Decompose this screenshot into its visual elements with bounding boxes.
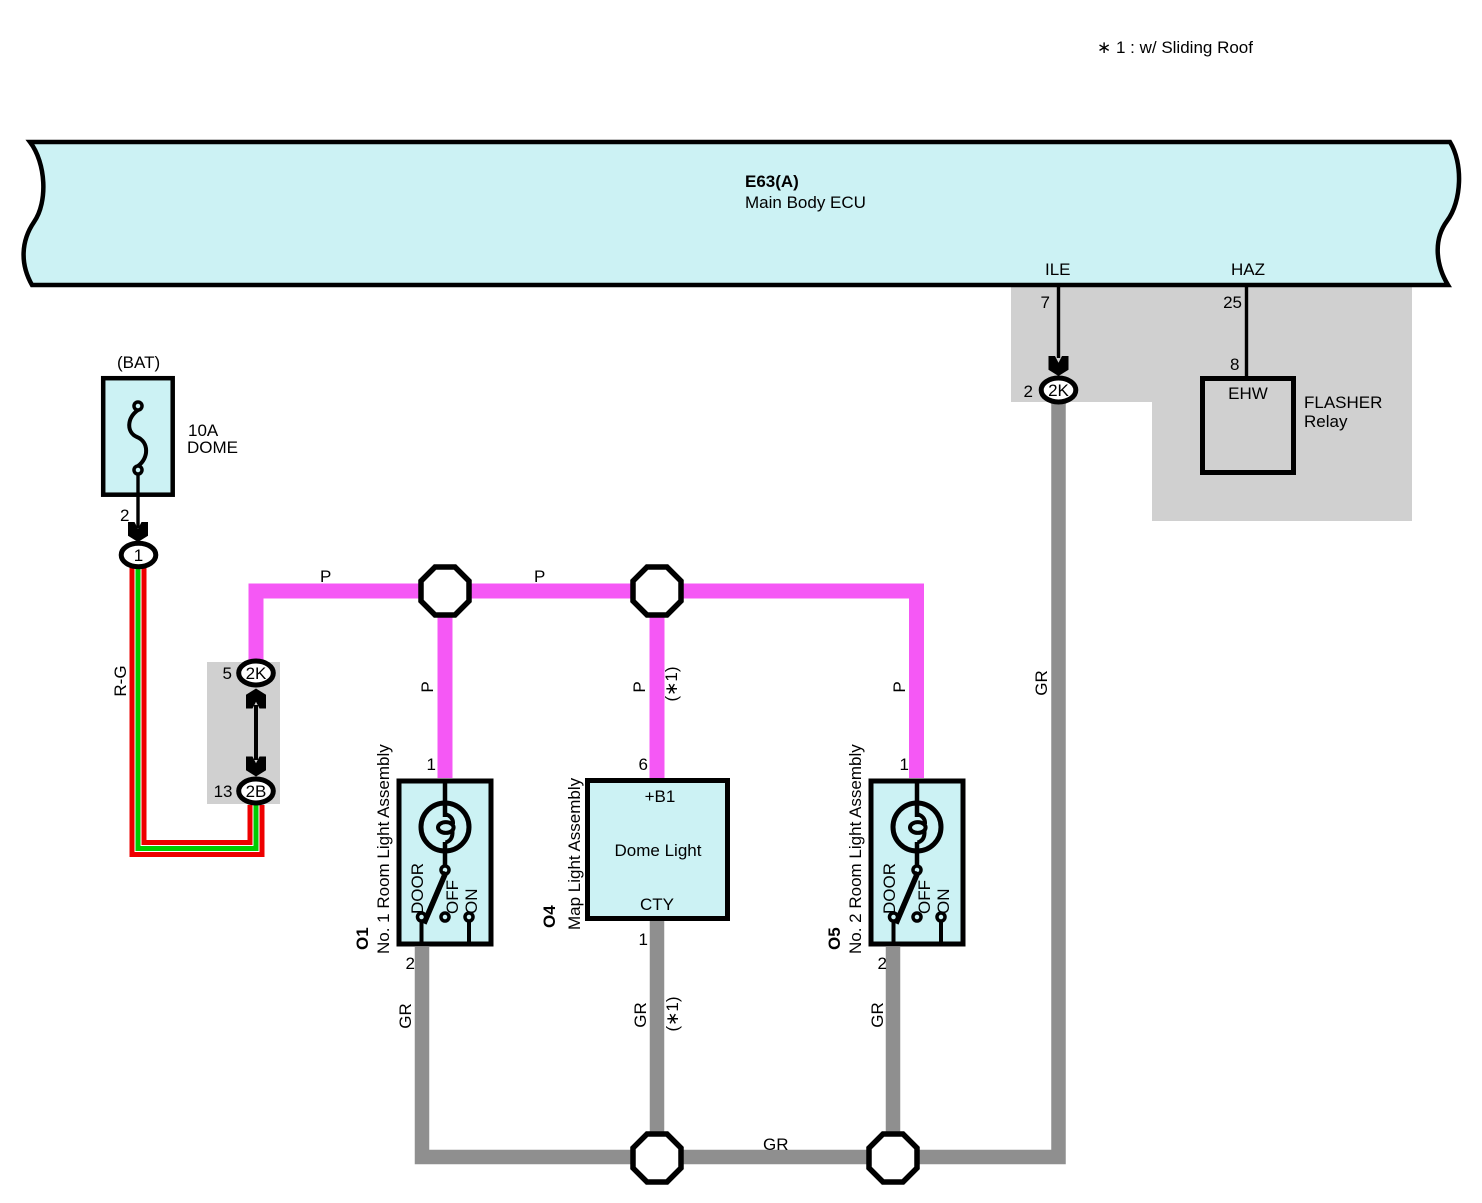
svg-text:2: 2 xyxy=(1024,382,1033,401)
svg-text:7: 7 xyxy=(1041,293,1050,312)
svg-text:2: 2 xyxy=(120,506,129,525)
svg-text:(∗1): (∗1) xyxy=(662,666,681,701)
shaded area 2K/2B junction xyxy=(207,662,280,804)
wire P drop to O4 pin 6 xyxy=(630,591,681,778)
node 1 xyxy=(121,543,156,566)
wire GR from O5 pin 2 xyxy=(886,947,901,1157)
svg-text:GR: GR xyxy=(396,1003,415,1029)
wire R-G from node 1 to connector 2B xyxy=(111,567,262,855)
svg-text:2K: 2K xyxy=(1048,381,1069,400)
svg-text:P: P xyxy=(320,567,331,586)
svg-text:O5: O5 xyxy=(825,927,844,950)
wire GR from connector 2K to ground bus xyxy=(422,395,1059,1157)
wire GR from O4 CTY pin 1 xyxy=(650,921,665,1157)
svg-text:Dome Light: Dome Light xyxy=(615,841,702,860)
svg-text:P: P xyxy=(890,681,909,692)
arrow into node 1 xyxy=(128,522,148,542)
svg-text:OFF: OFF xyxy=(443,880,462,914)
wire P drop to O1 pin 1 xyxy=(418,591,445,778)
svg-text:5: 5 xyxy=(223,664,232,683)
svg-text:DOOR: DOOR xyxy=(408,863,427,914)
svg-text:2B: 2B xyxy=(246,782,267,801)
svg-text:OFF: OFF xyxy=(915,880,934,914)
svg-text:P: P xyxy=(534,567,545,586)
svg-text:1: 1 xyxy=(900,755,909,774)
svg-text:ON: ON xyxy=(462,889,481,915)
svg-text:1: 1 xyxy=(639,930,648,949)
svg-text:8: 8 xyxy=(1230,355,1239,374)
ECU E63(A) Main Body ECU banner xyxy=(24,142,1459,285)
svg-text:O1: O1 xyxy=(353,927,372,950)
svg-text:25: 25 xyxy=(1223,293,1242,312)
svg-text:13: 13 xyxy=(214,782,233,801)
fuse 10A DOME xyxy=(103,353,238,495)
svg-text:1: 1 xyxy=(427,755,436,774)
svg-text:DOOR: DOOR xyxy=(880,863,899,914)
svg-text:HAZ: HAZ xyxy=(1231,260,1265,279)
svg-text:No. 2 Room Light Assembly: No. 2 Room Light Assembly xyxy=(846,744,865,954)
svg-text:O4: O4 xyxy=(540,905,559,928)
svg-text:EHW: EHW xyxy=(1228,384,1268,403)
svg-text:R-G: R-G xyxy=(111,665,130,696)
svg-text:P: P xyxy=(630,681,649,692)
svg-text:+B1: +B1 xyxy=(645,787,676,806)
svg-text:2: 2 xyxy=(878,954,887,973)
svg-text:P: P xyxy=(418,681,437,692)
svg-text:Main Body ECU: Main Body ECU xyxy=(745,193,866,212)
svg-text:2: 2 xyxy=(406,954,415,973)
svg-text:GR: GR xyxy=(868,1002,887,1028)
wire from ECU HAZ terminal xyxy=(1223,287,1246,378)
flasher relay EHW xyxy=(1203,379,1383,473)
svg-text:GR: GR xyxy=(631,1002,650,1028)
junction octagon B xyxy=(633,567,681,615)
junction octagon A xyxy=(421,567,469,615)
svg-text:∗ 1 : w/ Sliding Roof: ∗ 1 : w/ Sliding Roof xyxy=(1097,38,1253,57)
connector 2B xyxy=(214,779,274,803)
lamp assembly O5 No. 2 Room Light xyxy=(825,744,963,973)
junction octagon D xyxy=(869,1134,917,1182)
svg-text:CTY: CTY xyxy=(640,895,674,914)
wire P from connector 2K to O5 pin 1 xyxy=(256,567,917,778)
svg-text:E63(A): E63(A) xyxy=(745,172,799,191)
svg-text:FLASHER: FLASHER xyxy=(1304,393,1382,412)
note *1 w/ Sliding Roof xyxy=(1097,38,1253,57)
svg-text:GR: GR xyxy=(763,1135,789,1154)
svg-text:(BAT): (BAT) xyxy=(117,353,160,372)
svg-text:Map Light Assembly: Map Light Assembly xyxy=(565,777,584,930)
bulb xyxy=(443,781,448,817)
connector 2K (right) xyxy=(1024,378,1076,402)
connector 2K (left) xyxy=(223,661,274,685)
wire fuse pin 2 to node 1 xyxy=(120,474,148,542)
svg-text:DOME: DOME xyxy=(187,438,238,457)
switch DOOR/OFF/ON xyxy=(913,866,921,874)
junction double arrow 2K-2B xyxy=(246,689,266,777)
svg-text:(∗1): (∗1) xyxy=(663,996,682,1031)
arrow into connector 2K xyxy=(1049,356,1069,376)
svg-text:1: 1 xyxy=(134,546,143,565)
junction octagon C xyxy=(633,1134,681,1182)
svg-text:No. 1 Room Light Assembly: No. 1 Room Light Assembly xyxy=(374,744,393,954)
bulb xyxy=(915,781,920,817)
wire from ECU ILE terminal xyxy=(1041,287,1069,376)
svg-text:6: 6 xyxy=(639,755,648,774)
lamp assembly O4 Map Light xyxy=(540,755,728,949)
wire color labels GR xyxy=(396,670,1051,1154)
svg-text:ILE: ILE xyxy=(1045,260,1071,279)
svg-text:2K: 2K xyxy=(246,664,267,683)
switch DOOR/OFF/ON xyxy=(441,866,449,874)
shaded area under ILE/HAZ xyxy=(1011,285,1412,521)
svg-text:GR: GR xyxy=(1032,670,1051,696)
lamp assembly O1 No. 1 Room Light xyxy=(353,744,491,973)
svg-text:Relay: Relay xyxy=(1304,412,1348,431)
svg-text:ON: ON xyxy=(934,889,953,915)
